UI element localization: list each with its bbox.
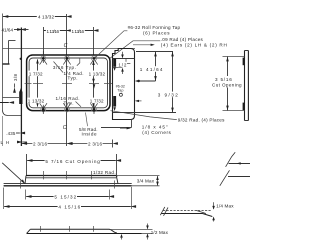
hat baseline (flange) xyxy=(4,183,132,185)
bent ear diagonal (left, 45 deg) xyxy=(2,163,24,183)
left view bottom corner xyxy=(3,110,22,116)
wire: left extension line x=2.5 xyxy=(2,14,4,111)
left view thick top step y=64 xyxy=(3,63,10,65)
interior dimension line right (1 13/32 over 1 7/32) xyxy=(93,61,95,106)
extension line top-left ear xyxy=(43,27,45,55)
ear top-right xyxy=(90,56,97,65)
svg-text:Cut Opening: Cut Opening xyxy=(212,83,242,88)
svg-text:3/16 Typ.: 3/16 Typ. xyxy=(53,65,76,70)
break slash 2 xyxy=(220,170,230,186)
svg-text:Inside: Inside xyxy=(82,132,97,137)
svg-text:5 7/16 Cut Opening: 5 7/16 Cut Opening xyxy=(45,159,100,164)
dimension 3 9/32 xyxy=(172,52,174,113)
left side-view flange edge (thick vertical x=21.4) xyxy=(20,28,22,147)
svg-text:.435: .435 xyxy=(6,131,16,136)
svg-text:Tap: Tap xyxy=(117,88,123,92)
dimension 1 13/16 (right of centerline) xyxy=(67,30,93,32)
svg-text:2 3/16: 2 3/16 xyxy=(33,141,47,146)
svg-text:#6-32 Roll Forming Tap: #6-32 Roll Forming Tap xyxy=(128,25,181,30)
dimension 3/4 Max xyxy=(116,175,159,177)
interior dimension line left (1 7/32 over 1 13/32) xyxy=(37,60,39,107)
svg-text:(4) Ears (2) LH & (2) RH: (4) Ears (2) LH & (2) RH xyxy=(161,43,227,48)
svg-text:1 13/32: 1 13/32 xyxy=(28,99,45,104)
broken-out section line 2 xyxy=(228,176,250,178)
dimension 1/2 Max xyxy=(110,229,153,231)
fold ticks on baseline xyxy=(20,181,22,189)
dimension 4 13/32 (top) xyxy=(3,16,66,18)
svg-text:LH: LH xyxy=(1,140,10,145)
svg-text:9/32 Rad. (4) Places: 9/32 Rad. (4) Places xyxy=(178,118,225,123)
ear top-center xyxy=(63,56,70,65)
dimension 5 7/16 Cut Opening xyxy=(26,154,28,176)
dimension 3 5/16 Cut Opening xyxy=(223,56,245,58)
svg-text:.09 Rad (4) Places: .09 Rad (4) Places xyxy=(161,37,204,42)
svg-text:1 13/16: 1 13/16 xyxy=(72,29,85,34)
construction line (long horizontal reference at y=48.5) xyxy=(3,48,136,50)
ear bottom-left xyxy=(40,103,47,114)
svg-text:C: C xyxy=(63,125,67,131)
right side view: top ear (edge-on, filled) xyxy=(113,59,116,67)
right side view: bottom interior line (extends to dim) xyxy=(112,112,176,114)
svg-text:(6) Places: (6) Places xyxy=(143,31,170,36)
ear top-left (hole + chamfer) xyxy=(40,51,47,65)
svg-text:4 15/16: 4 15/16 xyxy=(58,205,80,210)
right side view: flange surface line xyxy=(112,58,134,60)
left flange top hole xyxy=(20,58,22,60)
arrow shelf y=44.8 xyxy=(133,44,153,46)
svg-text:1/32 Rad.: 1/32 Rad. xyxy=(93,170,116,175)
leader 9/32 Rad note xyxy=(111,111,177,120)
svg-text:4 13/32: 4 13/32 xyxy=(38,15,54,20)
hole ticks xyxy=(40,226,42,232)
centerline dashes at box mid-height xyxy=(25,83,32,85)
svg-text:C: C xyxy=(64,43,68,49)
svg-text:2 3/16: 2 3/16 xyxy=(88,141,102,146)
svg-text:1 13/16: 1 13/16 xyxy=(47,29,60,34)
svg-text:(4) Corners: (4) Corners xyxy=(142,130,171,135)
left view ear tab lines xyxy=(3,97,20,99)
broken-out section (bottom right) line 1 xyxy=(229,163,250,165)
hat step right xyxy=(116,176,118,184)
main view: inner rounded rectangle xyxy=(29,58,107,108)
far right edge view xyxy=(244,51,246,121)
extension line top-right ear xyxy=(93,27,95,55)
svg-text:1 13/32: 1 13/32 xyxy=(89,72,106,77)
svg-text:1/2: 1/2 xyxy=(118,63,126,68)
small up arrow under curve xyxy=(120,234,123,238)
leader #6-32 tap note xyxy=(95,31,128,58)
right side view outline xyxy=(113,49,135,120)
node: vertical centerline x=67 xyxy=(66,14,68,146)
ear bottom-center xyxy=(63,103,70,112)
break slashes xyxy=(160,207,165,215)
dimension 1 13/16 (left of centerline) xyxy=(44,30,66,32)
chamfer corner callout geometry xyxy=(131,120,133,128)
bottom view (hat profile): raised top xyxy=(26,175,116,177)
extension line y=52 (right dims) xyxy=(136,51,173,53)
dimension 1/4 Max xyxy=(213,202,215,209)
left small vertical x=8.5 with tick xyxy=(8,41,10,64)
right side view: bottom ear (edge-on, filled) xyxy=(113,96,116,107)
left view ear (filled, edge-on) xyxy=(19,92,22,105)
dimension 1 41/64 xyxy=(138,80,140,82)
svg-text:3/4 Max: 3/4 Max xyxy=(137,179,155,184)
svg-text:Typ.: Typ. xyxy=(64,101,74,106)
hat step left xyxy=(25,176,26,184)
svg-text:1/4 Max: 1/4 Max xyxy=(216,204,234,209)
hole center ticks on hat xyxy=(43,171,45,179)
svg-text:Typ.: Typ. xyxy=(68,76,78,81)
edge view ears (filled) xyxy=(243,58,245,66)
svg-text:1 7/32: 1 7/32 xyxy=(90,99,104,104)
arrow at right edge y=100.9 xyxy=(135,100,139,102)
svg-text:1 41/64: 1 41/64 xyxy=(140,67,163,72)
right side view: step lines xyxy=(125,59,127,64)
svg-text:3 9/32: 3 9/32 xyxy=(158,93,178,98)
deflection detail solid xyxy=(162,213,203,215)
dimension 1/2 (side view) xyxy=(122,52,124,58)
dimension 4 15/16 xyxy=(3,188,5,210)
leader .09 Rad note xyxy=(110,41,160,59)
deflection detail (dashed nominal line) xyxy=(163,210,211,212)
dimension 2 3/16 + 2 3/16 (below main view) xyxy=(22,143,67,145)
svg-text:1/2 Max: 1/2 Max xyxy=(151,230,169,235)
main view: outer rounded rectangle of cover xyxy=(27,55,110,111)
third profile (flatness view) xyxy=(30,229,117,233)
svg-text:3/8: 3/8 xyxy=(13,73,18,81)
break slash 1 xyxy=(226,152,236,167)
svg-text:41/64: 41/64 xyxy=(2,28,14,33)
extension tick x=113 xyxy=(112,140,114,148)
svg-text:3 5/16: 3 5/16 xyxy=(215,77,232,82)
svg-text:1 7/32: 1 7/32 xyxy=(29,72,43,77)
svg-text:5 15/32: 5 15/32 xyxy=(54,194,76,199)
dimension 5 15/32 xyxy=(25,190,27,200)
ear bottom-right xyxy=(90,103,97,114)
tapped hole (side view) xyxy=(119,93,122,96)
